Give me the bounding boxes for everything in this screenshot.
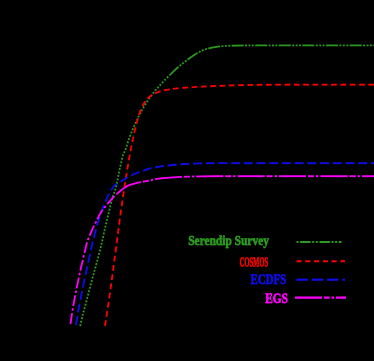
curve: Serendip Survey (green, dotted steep section) [80,75,170,326]
legend sample line: EGS [295,297,346,299]
curve: Serendip Survey (green, merged-dot flat section) [170,45,374,75]
curve: COSMOS (red dashed) [105,85,374,326]
svg-text:EGS: EGS [265,291,288,307]
curve: EGS (magenta, long-dash steep section) [71,194,118,324]
curve: ECDFS (blue long-dash) [76,163,374,325]
svg-text:COSMOS: COSMOS [240,256,269,271]
legend sample line: COSMOS [297,260,346,262]
legend sample line: ECDFS [297,279,346,281]
svg-text:Serendip Survey: Serendip Survey [188,234,269,249]
svg-text:ECDFS: ECDFS [251,272,287,288]
curve: EGS (magenta, dash-dot flat section) [117,176,374,194]
legend sample line: Serendip Survey [297,241,342,243]
